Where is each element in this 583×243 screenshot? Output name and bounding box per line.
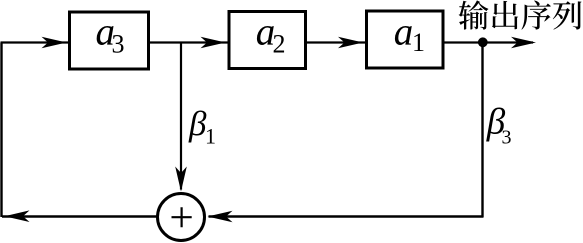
register box a3 [70, 12, 149, 69]
wire: input horizontal into a3 [1, 41, 69, 43]
svg-text:3: 3 [502, 127, 512, 149]
wire: a1 to output [444, 41, 533, 43]
label: output sequence 输出序列 [459, 0, 582, 29]
wire: feedback left vertical [0, 43, 2, 218]
adder circle [158, 194, 205, 241]
arrowhead at bottom-left corner [5, 210, 30, 222]
svg-text:a: a [394, 10, 414, 53]
register box a1 [367, 11, 444, 68]
svg-text:1: 1 [205, 124, 216, 149]
register box a2 [229, 12, 306, 69]
arrowhead into adder top [175, 167, 187, 192]
svg-text:3: 3 [112, 30, 125, 59]
svg-text:1: 1 [412, 28, 425, 57]
wire: bottom-left stub [2, 215, 28, 217]
arrowhead into adder right [208, 211, 233, 223]
wire: adder output to left [28, 215, 158, 217]
arrowhead output [511, 37, 536, 49]
arrowhead into a1 [338, 37, 363, 49]
wire: beta1 tap vertical from a3-a2 wire down to adder [180, 43, 182, 190]
adder plus sign [172, 207, 192, 227]
wire: a2 to a1 horizontal [307, 41, 365, 43]
arrowhead into a2 [201, 37, 226, 49]
wire: beta3 vertical from output node down [481, 43, 483, 218]
wire: a3 to a2 horizontal [150, 41, 228, 43]
arrowhead into a3 [42, 37, 67, 49]
wire: bottom right horizontal from beta3 line to adder [209, 215, 484, 217]
node: output junction dot [478, 37, 488, 47]
svg-text:2: 2 [273, 30, 286, 59]
